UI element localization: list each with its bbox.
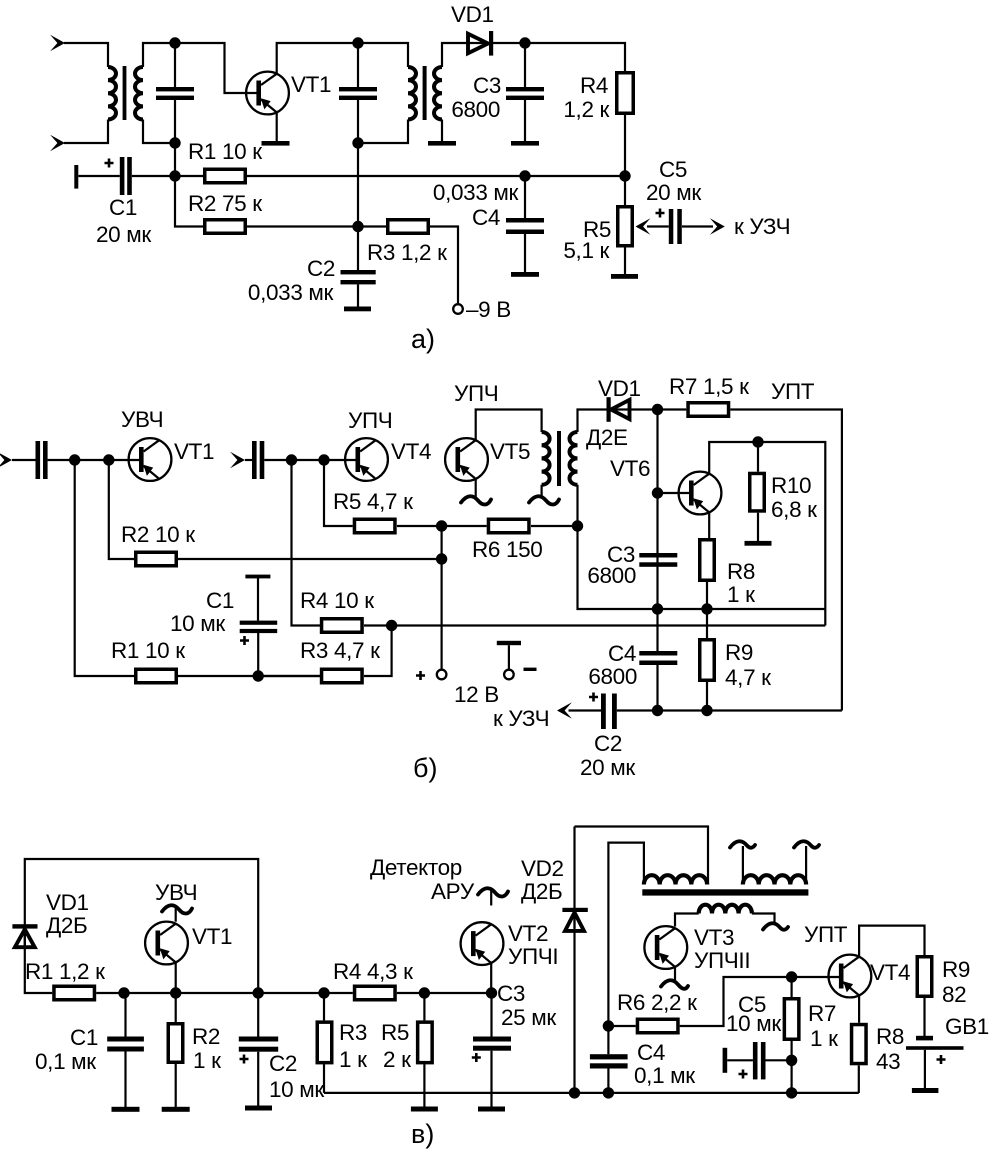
- svg-text:VT6: VT6: [610, 456, 650, 481]
- transistor VT2: [370, 855, 558, 993]
- diode VD1 v: [12, 890, 88, 947]
- svg-text:0,1 мк: 0,1 мк: [634, 1063, 695, 1088]
- wire base row v: [258, 992, 353, 994]
- svg-text:R8: R8: [727, 559, 755, 584]
- node v1 junction dot: [118, 987, 129, 998]
- svg-text:1,2 к: 1,2 к: [563, 97, 609, 122]
- svg-text:R7: R7: [808, 1001, 836, 1026]
- capacitor C1 b: [170, 575, 277, 676]
- winding 2 right stub: [805, 846, 807, 885]
- wire VD2 top loop to IF transformer: [575, 827, 709, 885]
- terminal +12V: [416, 670, 499, 707]
- coupling capacitor b1: [36, 441, 48, 479]
- svg-text:VT1: VT1: [174, 439, 214, 464]
- node b7 junction dot: [436, 553, 447, 564]
- resistor R3 v: [317, 993, 367, 1093]
- resistor R1: [175, 139, 625, 183]
- svg-text:R6 2,2 к: R6 2,2 к: [617, 990, 697, 1015]
- rail R4 row b: [392, 624, 826, 626]
- svg-text:C2: C2: [594, 731, 622, 756]
- svg-text:УПЧI: УПЧI: [508, 944, 558, 969]
- svg-text:R6 150: R6 150: [472, 537, 542, 562]
- transformer T1 secondary winding: [135, 67, 143, 119]
- capacitor C4: [433, 176, 544, 273]
- ground at C3 v: [478, 1107, 505, 1112]
- input terminal arrow b: [0, 452, 12, 469]
- node b16 junction dot: [701, 705, 712, 716]
- wire T3 primary bottom stub: [540, 485, 542, 497]
- ground at VT1 emitter: [262, 141, 290, 146]
- svg-text:2 к: 2 к: [383, 1047, 411, 1072]
- resistor R4 v: [333, 959, 492, 1000]
- svg-text:82: 82: [942, 982, 966, 1007]
- wire winding 3 right stub: [752, 914, 775, 926]
- transistor VT1 v: [145, 880, 232, 993]
- svg-text:25 мк: 25 мк: [501, 1005, 556, 1030]
- wire node b6 down to +12V terminal: [441, 526, 443, 670]
- input terminal arrow top: [50, 35, 65, 52]
- capacitor C5: [646, 157, 701, 244]
- node b15 junction dot: [652, 705, 663, 716]
- capacitor C5 v: [723, 992, 792, 1079]
- svg-text:R7 1,5 к: R7 1,5 к: [669, 374, 749, 399]
- svg-text:VD1: VD1: [451, 2, 494, 27]
- svg-text:R1 1,2 к: R1 1,2 к: [25, 959, 105, 984]
- svg-text:5,1 к: 5,1 к: [563, 238, 609, 263]
- capacitor C3 b: [587, 542, 677, 609]
- capacitor C4 v: [590, 1026, 695, 1093]
- IF transformer core: [642, 889, 808, 895]
- svg-text:УВЧ: УВЧ: [121, 407, 163, 432]
- svg-text:АРУ: АРУ: [431, 879, 475, 904]
- svg-text:6800: 6800: [451, 97, 500, 122]
- svg-text:10 мк: 10 мк: [170, 611, 225, 636]
- svg-text:C2: C2: [269, 1051, 297, 1076]
- capacitor C1: [74, 157, 175, 247]
- svg-text:R4 4,3 к: R4 4,3 к: [333, 959, 413, 984]
- svg-text:Детектор: Детектор: [370, 855, 462, 880]
- svg-text:VT4: VT4: [870, 960, 910, 985]
- svg-text:C2: C2: [307, 256, 335, 281]
- node v3 junction dot: [253, 987, 264, 998]
- svg-text:Д2Б: Д2Б: [46, 913, 87, 938]
- resistor R8 v: [852, 1024, 905, 1093]
- resistor R1 v: [25, 959, 258, 1000]
- svg-text:R3: R3: [339, 1020, 367, 1045]
- capacitor C4 b: [588, 609, 677, 711]
- wire cap b1 to VT1 base: [48, 459, 140, 461]
- svg-text:R9: R9: [725, 640, 753, 665]
- wire winding 3 left to VT3 collector: [675, 914, 699, 927]
- wire node b4 down to R4 b: [292, 460, 321, 626]
- wire node B down through node D to R2 row: [175, 143, 203, 227]
- squiggle at winding 3 right: [763, 923, 788, 929]
- node b1 junction dot: [69, 454, 80, 465]
- wire VT1 emitter to ground: [276, 112, 278, 141]
- svg-text:R4: R4: [580, 73, 608, 98]
- node b14 junction dot: [386, 620, 397, 631]
- output arrow to AF amp b: [493, 702, 601, 731]
- transformer T1 core: [123, 66, 127, 120]
- resistor R7 b: [658, 374, 842, 711]
- resistor R2: [188, 191, 358, 233]
- diode VD1: [451, 2, 494, 56]
- node v11 junction dot: [786, 1055, 797, 1066]
- svg-text:УПТ: УПТ: [804, 922, 848, 947]
- svg-text:VD2: VD2: [521, 856, 564, 881]
- svg-text:C1: C1: [206, 588, 234, 613]
- svg-text:C4: C4: [637, 1040, 665, 1065]
- squiggle at VT3 emitter: [661, 980, 688, 989]
- svg-text:1 к: 1 к: [727, 582, 755, 607]
- node b8 junction dot: [572, 520, 583, 531]
- svg-text:б): б): [413, 753, 437, 783]
- wire input to coupling cap b1: [12, 459, 36, 461]
- resistor R4 b: [300, 588, 392, 632]
- squiggle at winding 2 left: [730, 841, 755, 847]
- node b3 junction dot C1 top: [253, 670, 264, 681]
- transformer T3 core: [557, 431, 561, 486]
- svg-text:–9 В: –9 В: [466, 297, 511, 322]
- node v4 junction dot: [318, 987, 329, 998]
- svg-text:R4 10 к: R4 10 к: [300, 588, 374, 613]
- svg-text:R1 10 к: R1 10 к: [111, 638, 185, 663]
- svg-text:6,8 к: 6,8 к: [771, 497, 817, 522]
- svg-text:VD1: VD1: [46, 890, 89, 915]
- node b2 junction dot: [103, 454, 114, 465]
- svg-text:12 В: 12 В: [454, 682, 499, 707]
- node v6 junction dot: [486, 987, 497, 998]
- resistor R9 v: [917, 957, 970, 1036]
- squiggle at T3 primary bottom: [529, 496, 559, 504]
- svg-text:Д2Е: Д2Е: [586, 425, 628, 450]
- transformer T2 primary winding: [408, 67, 416, 119]
- svg-text:R2 75 к: R2 75 к: [188, 191, 262, 216]
- svg-text:а): а): [411, 324, 435, 354]
- svg-text:C5: C5: [659, 157, 687, 182]
- terminal -9V: [453, 297, 511, 322]
- node A junction dot: [169, 37, 180, 48]
- resistor R10: [750, 442, 817, 541]
- svg-text:R2 10 к: R2 10 к: [121, 522, 195, 547]
- svg-text:VT1: VT1: [291, 72, 331, 97]
- transformer T1 primary winding: [108, 67, 116, 119]
- tank capacitor 2: [339, 43, 377, 143]
- resistor R1 b: [111, 638, 320, 683]
- svg-text:R3 1,2 к: R3 1,2 к: [367, 240, 447, 265]
- IF transformer winding 3: [699, 905, 752, 914]
- potentiometer R5: [563, 176, 668, 275]
- resistor R6 v: [608, 977, 839, 1033]
- transistor VT6: [610, 456, 721, 514]
- IF transformer winding 2: [743, 875, 806, 884]
- wire T1 secondary bottom to node B: [143, 120, 175, 144]
- svg-text:10 мк: 10 мк: [726, 1011, 781, 1036]
- svg-text:R8: R8: [876, 1024, 904, 1049]
- node b4 junction dot: [286, 454, 297, 465]
- transformer T2 core: [423, 66, 427, 120]
- wire node b1 down to R1 b row: [75, 460, 134, 676]
- battery GB1: [906, 1014, 989, 1088]
- resistor R5 b: [333, 489, 442, 533]
- wire node b2 down to R2 b row: [109, 460, 134, 559]
- node b11 junction dot R10 top: [752, 436, 763, 447]
- node v9 junction dot: [603, 1087, 614, 1098]
- transistor VT5 b: [445, 381, 530, 481]
- svg-text:УПЧ: УПЧ: [348, 408, 392, 433]
- ground at C1 v: [112, 1107, 140, 1112]
- label v): [411, 1119, 434, 1149]
- output arrow to AF amplifier: [682, 214, 790, 239]
- svg-text:УВЧ: УВЧ: [155, 880, 197, 905]
- wire node b10 to VT6 base bar: [658, 492, 690, 494]
- node b5 junction dot: [318, 454, 329, 465]
- svg-text:в): в): [411, 1119, 434, 1149]
- wire T3 secondary top to VD1 b: [578, 410, 658, 433]
- transformer T3 secondary winding: [570, 432, 578, 485]
- node b9 junction dot: [652, 404, 663, 415]
- svg-text:1 к: 1 к: [810, 1026, 838, 1051]
- wire VT4 emitter to R8: [858, 995, 860, 1023]
- squiggle at VT5 emitter: [461, 496, 491, 504]
- svg-text:C3: C3: [497, 981, 525, 1006]
- ground at R5: [611, 274, 638, 279]
- resistor R2 b: [121, 522, 442, 566]
- wire node C to R4: [525, 43, 625, 71]
- second input arrow b: [230, 452, 245, 469]
- wire VT6 emitter to R8: [708, 512, 710, 538]
- svg-text:VT3: VT3: [694, 925, 734, 950]
- capacitor C3: [451, 43, 544, 142]
- svg-text:0,033 мк: 0,033 мк: [248, 280, 334, 305]
- transformer T3 primary winding: [542, 432, 550, 485]
- wire tank2 bottom to T2 primary bottom: [358, 120, 408, 144]
- svg-text:20 мк: 20 мк: [580, 755, 635, 780]
- svg-text:VT4: VT4: [391, 439, 431, 464]
- coupling capacitor b2: [245, 441, 264, 479]
- wire T1 secondary top to node A: [143, 43, 175, 67]
- svg-text:1 к: 1 к: [193, 1048, 221, 1073]
- bottom rail v: [324, 1092, 859, 1094]
- terminal -12V with bar: [497, 641, 537, 680]
- ground at R2 v: [162, 1107, 190, 1112]
- capacitor C2 b: [580, 693, 842, 781]
- wire T2 secondary top to diode VD1: [442, 43, 525, 67]
- squiggle above VT2 detector: [478, 888, 508, 896]
- node b12 junction dot: [652, 603, 663, 614]
- node bottom of tank 2: [352, 137, 363, 148]
- diode VD1 b: [586, 376, 641, 450]
- svg-text:R10: R10: [771, 473, 811, 498]
- wire VT5 collector to T3 primary: [476, 410, 542, 441]
- node b10 junction dot VT6 base: [652, 487, 663, 498]
- squiggle above VT1 v: [162, 905, 192, 913]
- svg-text:GB1: GB1: [945, 1014, 989, 1039]
- resistor R3 b: [258, 626, 391, 683]
- node v2 junction dot: [170, 987, 181, 998]
- svg-text:43: 43: [876, 1049, 900, 1074]
- resistor R8: [700, 540, 755, 609]
- svg-text:VT1: VT1: [192, 924, 232, 949]
- label a): [411, 324, 435, 354]
- svg-text:R5: R5: [381, 1020, 409, 1045]
- ground at R5 v: [411, 1107, 438, 1112]
- transistor VT1 b: [121, 407, 214, 481]
- node v7 junction dot: [569, 1087, 580, 1098]
- svg-text:6800: 6800: [587, 563, 636, 588]
- resistor R9 b: [700, 609, 771, 711]
- IF transformer winding 1: [644, 875, 707, 884]
- node v10 junction dot VT4 base: [786, 971, 797, 982]
- wire long vertical to R6 v node: [608, 843, 644, 1026]
- resistor R2 v: [168, 993, 221, 1107]
- winding 2 left stub: [742, 846, 744, 885]
- capacitor C1 v: [35, 993, 144, 1107]
- resistor R6 b: [442, 519, 578, 562]
- wire top rail v: [25, 859, 258, 993]
- capacitor C2: [248, 227, 376, 307]
- ground at R10: [745, 541, 772, 546]
- svg-text:20 мк: 20 мк: [96, 222, 151, 247]
- svg-text:20 мк: 20 мк: [646, 180, 701, 205]
- node top of tank 2: [352, 37, 363, 48]
- wire cap b2 to VT4 base: [264, 459, 356, 461]
- wire VT4 collector to R9: [859, 926, 924, 957]
- transformer T2 secondary winding: [434, 67, 442, 119]
- wire node b5 down to R5 b: [324, 460, 353, 526]
- wire node b9 down to VT6 base: [656, 410, 658, 554]
- wire T2 secondary bottom to ground: [441, 120, 443, 142]
- svg-text:C1: C1: [109, 195, 137, 220]
- svg-text:к УЗЧ: к УЗЧ: [493, 706, 549, 731]
- svg-text:10 мк: 10 мк: [269, 1077, 324, 1102]
- svg-text:R5 4,7 к: R5 4,7 к: [333, 489, 413, 514]
- svg-text:R1 10 к: R1 10 к: [188, 139, 262, 164]
- svg-text:C4: C4: [472, 205, 500, 230]
- svg-text:0,033 мк: 0,033 мк: [433, 180, 519, 205]
- ground at C3: [511, 141, 539, 146]
- node F junction dot: [519, 170, 530, 181]
- svg-text:УПТ: УПТ: [771, 379, 815, 404]
- wire VD1 v to R1 v: [25, 929, 52, 993]
- diode VD2: [521, 827, 588, 1093]
- capacitor C3 v: [472, 981, 557, 1107]
- svg-text:R2: R2: [192, 1024, 220, 1049]
- svg-text:к УЗЧ: к УЗЧ: [734, 214, 790, 239]
- svg-text:УПЧ: УПЧ: [454, 381, 498, 406]
- node B junction dot: [169, 137, 180, 148]
- node G junction dot: [619, 170, 630, 181]
- wire VT1 collector to top rail: [277, 43, 408, 74]
- input terminal arrow bottom: [50, 135, 65, 152]
- node b6 junction dot: [436, 520, 447, 531]
- wire tank2 bottom to node E: [357, 143, 359, 227]
- svg-text:R3 4,7 к: R3 4,7 к: [300, 638, 380, 663]
- transistor VT1: [246, 72, 331, 115]
- svg-text:0,1 мк: 0,1 мк: [35, 1049, 96, 1074]
- resistor R5 v: [381, 993, 432, 1107]
- svg-text:Д2Б: Д2Б: [521, 879, 562, 904]
- node D junction dot: [169, 170, 180, 181]
- svg-text:VT2: VT2: [508, 921, 548, 946]
- label b): [413, 753, 437, 783]
- wire T3 secondary bottom to rail: [578, 485, 826, 609]
- svg-text:C4: C4: [608, 641, 636, 666]
- svg-text:6800: 6800: [588, 664, 637, 689]
- tank capacitor 1: [156, 43, 194, 143]
- svg-text:4,7 к: 4,7 к: [725, 665, 771, 690]
- wire node A to VT1 base: [175, 43, 257, 93]
- wire VT5 emitter stub: [475, 479, 477, 497]
- svg-text:VT5: VT5: [490, 439, 530, 464]
- svg-text:R9: R9: [942, 957, 970, 982]
- transistor VT3: [644, 925, 750, 982]
- node b13 junction dot: [701, 603, 712, 614]
- wire VT6 collector loop: [709, 442, 825, 626]
- node E junction dot: [352, 221, 363, 232]
- svg-text:C3: C3: [473, 73, 501, 98]
- ground at T2 secondary: [428, 141, 456, 146]
- ground at C2: [344, 307, 371, 312]
- svg-text:УПЧII: УПЧII: [694, 948, 750, 973]
- ground at GB1: [912, 1088, 939, 1093]
- ground at C2 v: [245, 1106, 272, 1111]
- resistor R3: [358, 220, 458, 304]
- transistor VT4 v: [804, 922, 910, 997]
- svg-text:1 к: 1 к: [339, 1047, 367, 1072]
- transistor VT4 b: [345, 408, 431, 481]
- ground at C4: [511, 272, 539, 277]
- node C junction dot: [519, 37, 530, 48]
- node v8 junction dot R6: [603, 1020, 614, 1031]
- svg-text:C1: C1: [70, 1025, 98, 1050]
- wire input2 to T1 primary bottom: [64, 120, 108, 144]
- node v5 junction dot: [419, 987, 430, 998]
- squiggle at winding 2 right: [794, 841, 819, 847]
- wire input1 to transformer T1 primary: [64, 43, 108, 67]
- svg-text:VD1: VD1: [598, 376, 641, 401]
- capacitor C2 v: [239, 993, 325, 1106]
- resistor R4: [563, 73, 633, 176]
- node v12 junction dot: [786, 1087, 797, 1098]
- resistor R7 v: [784, 977, 838, 1093]
